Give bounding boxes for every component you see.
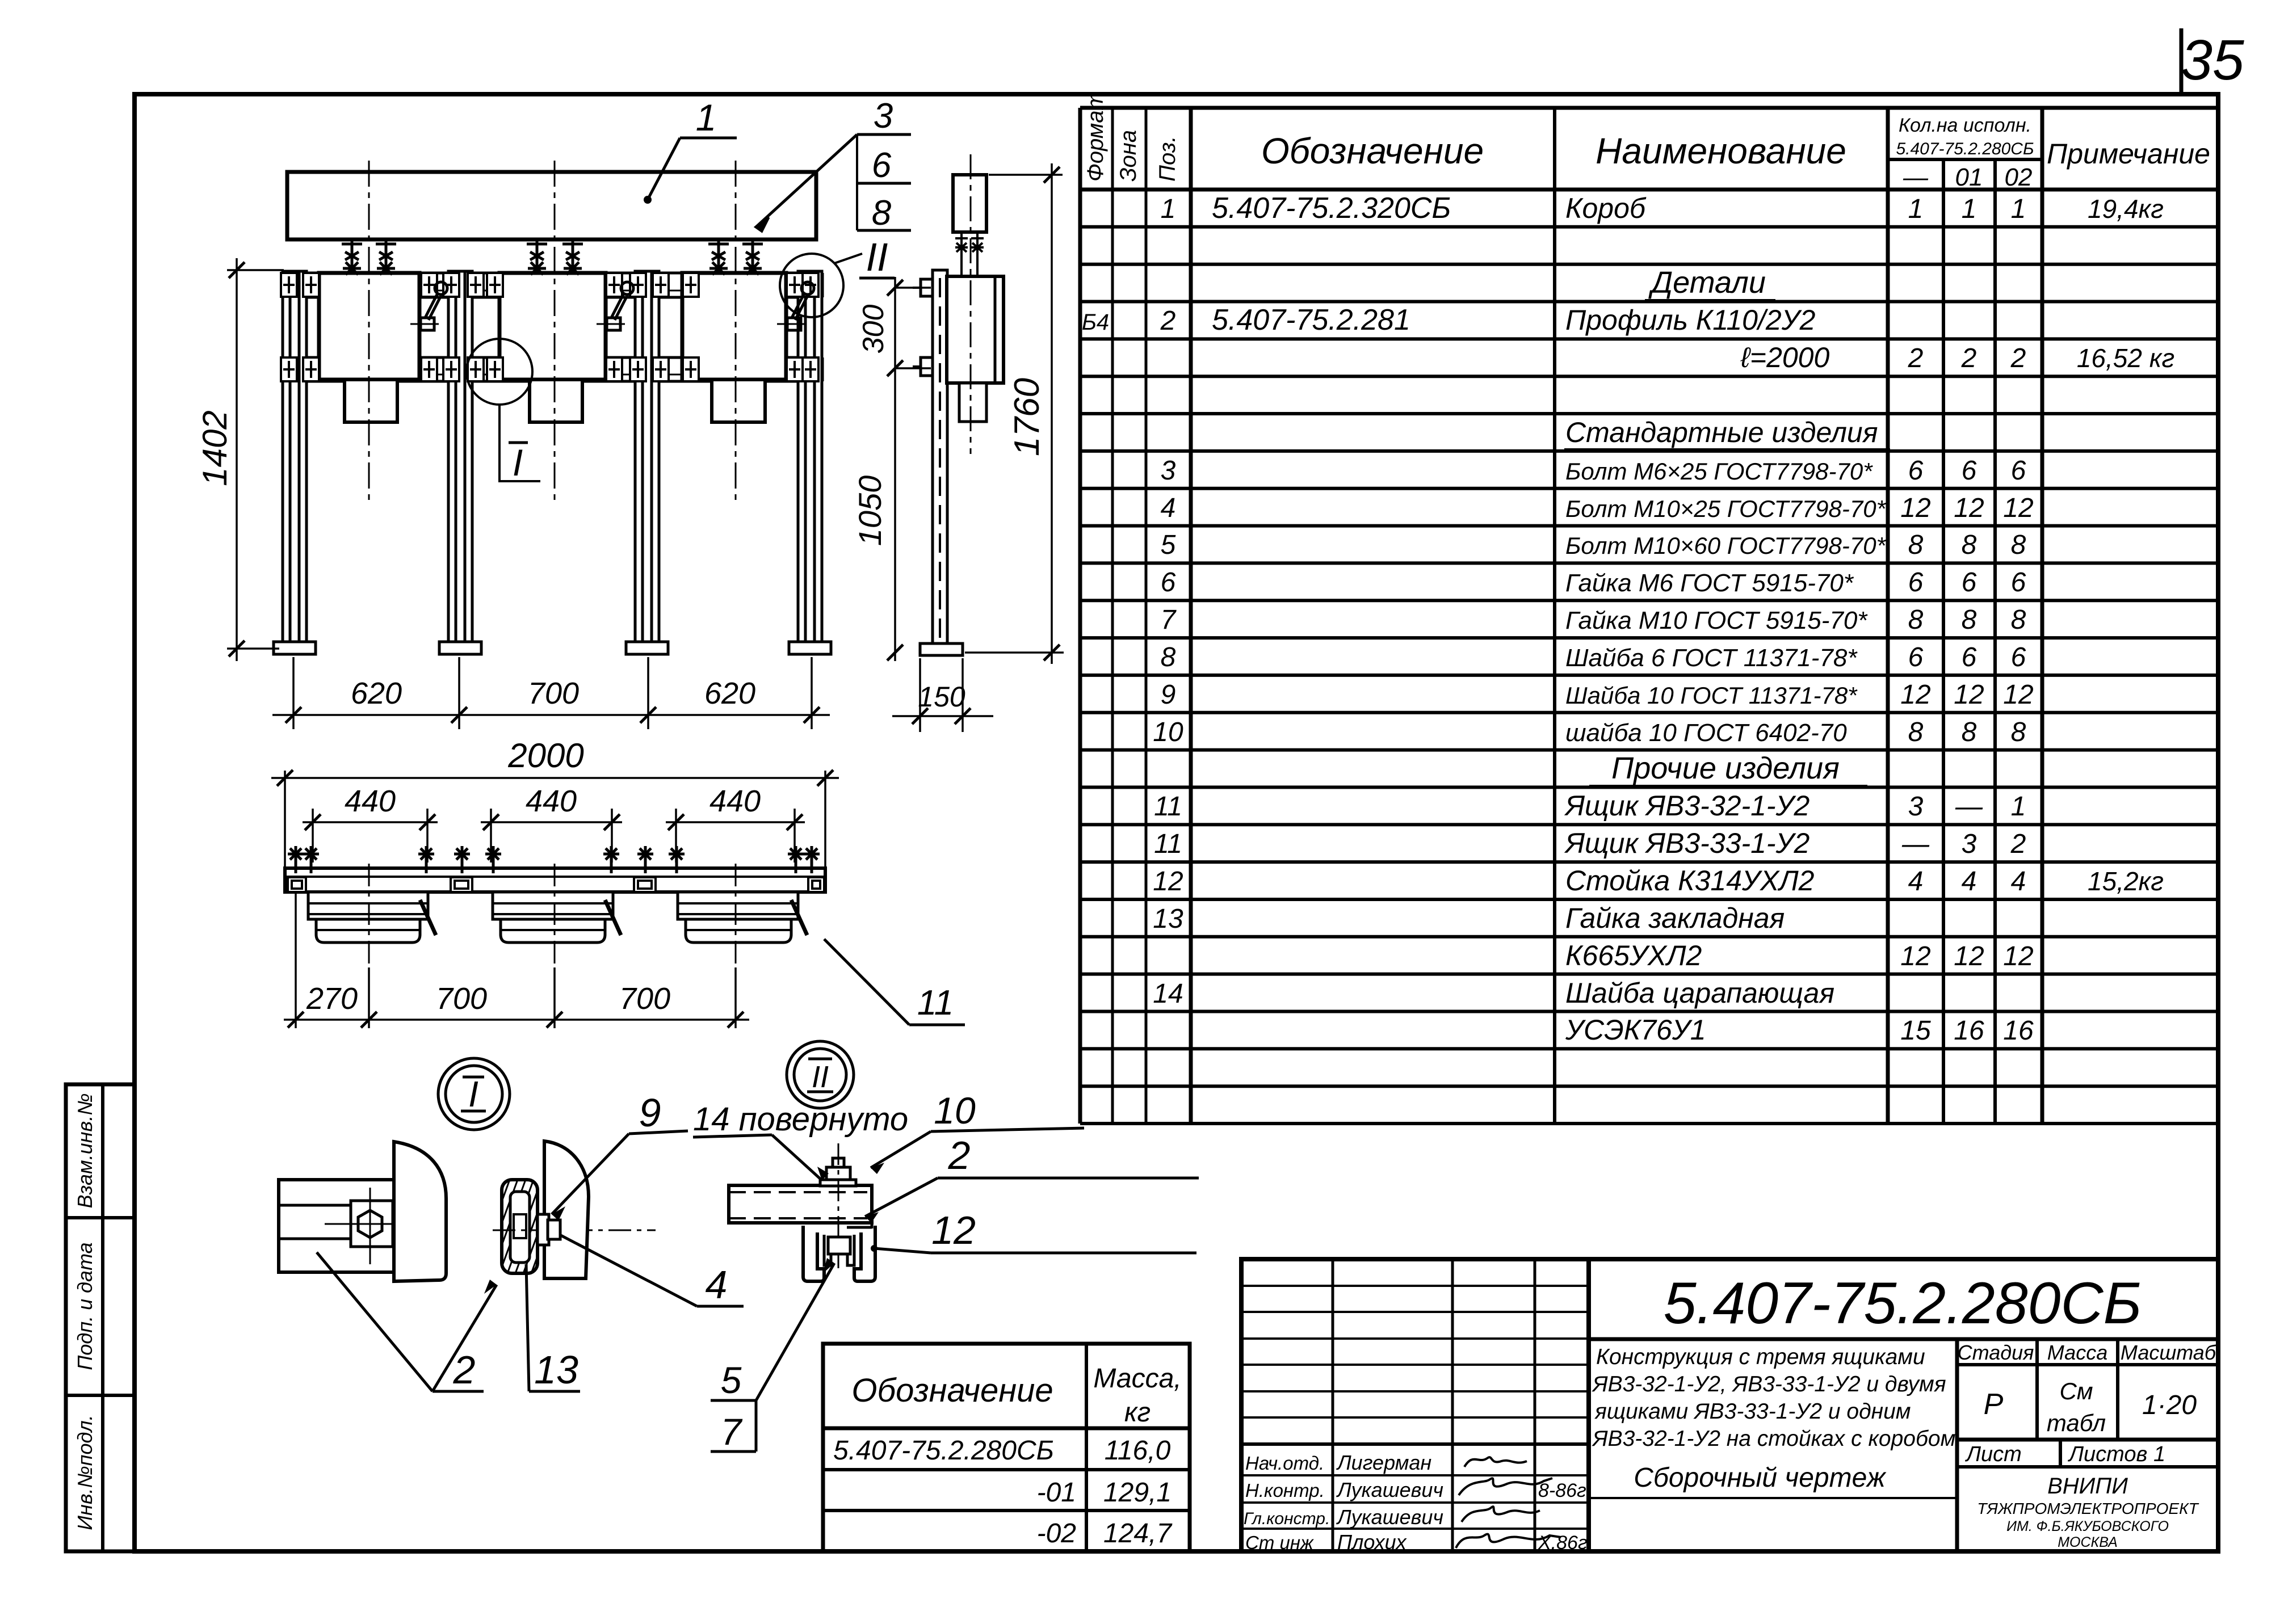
svg-text:4: 4 bbox=[706, 1263, 728, 1307]
svg-text:Масштаб: Масштаб bbox=[2121, 1341, 2217, 1364]
svg-text:2: 2 bbox=[2010, 829, 2026, 859]
svg-text:1·20: 1·20 bbox=[2142, 1390, 2197, 1420]
detail circle I on lower rail bbox=[467, 339, 532, 405]
spec table headers bbox=[1083, 91, 2210, 191]
svg-text:6: 6 bbox=[1962, 456, 1977, 486]
svg-text:12: 12 bbox=[1900, 680, 1930, 710]
svg-text:8: 8 bbox=[1908, 717, 1924, 747]
svg-text:II: II bbox=[812, 1060, 829, 1094]
svg-text:Зона: Зона bbox=[1116, 130, 1141, 182]
svg-text:Гайка М10 ГОСТ 5915-70*: Гайка М10 ГОСТ 5915-70* bbox=[1565, 607, 1868, 634]
svg-text:ЯВ3-32-1-У2, ЯВ3-33-1-У2 и дву: ЯВ3-32-1-У2, ЯВ3-33-1-У2 и двумя bbox=[1592, 1372, 1946, 1396]
side view bolts bbox=[955, 232, 984, 276]
svg-text:Шайба царапающая: Шайба царапающая bbox=[1565, 977, 1834, 1009]
svg-text:1: 1 bbox=[1908, 194, 1924, 224]
svg-text:8: 8 bbox=[1908, 605, 1924, 635]
svg-text:6: 6 bbox=[1962, 567, 1977, 598]
svg-text:15,2кг: 15,2кг bbox=[2088, 866, 2164, 896]
svg-text:1: 1 bbox=[2011, 792, 2026, 822]
svg-text:12: 12 bbox=[1954, 493, 1984, 523]
post stojka 4 bbox=[789, 271, 831, 654]
plan bolts bbox=[288, 846, 304, 873]
svg-text:—: — bbox=[1901, 829, 1930, 859]
plan box 2 bbox=[493, 864, 621, 967]
svg-text:Формат: Формат bbox=[1083, 91, 1108, 182]
spec table grid bbox=[1080, 108, 2218, 1124]
detail I hex bolt bbox=[358, 1210, 382, 1238]
svg-text:15: 15 bbox=[1900, 1016, 1931, 1046]
svg-text:Гл.констр.: Гл.констр. bbox=[1244, 1509, 1330, 1528]
svg-text:Детали: Детали bbox=[1648, 266, 1766, 300]
svg-text:1: 1 bbox=[2011, 194, 2026, 224]
svg-text:150: 150 bbox=[918, 681, 965, 713]
svg-text:Плохих: Плохих bbox=[1337, 1530, 1408, 1554]
detail II profile bar pos2 bbox=[729, 1185, 872, 1228]
svg-text:11: 11 bbox=[1154, 792, 1182, 822]
svg-text:Б4: Б4 bbox=[1082, 310, 1109, 335]
svg-text:14: 14 bbox=[1153, 979, 1183, 1009]
side view post bbox=[920, 270, 963, 655]
svg-text:6: 6 bbox=[2011, 456, 2026, 486]
detail circle II top right bbox=[780, 254, 843, 317]
svg-text:700: 700 bbox=[528, 676, 579, 710]
svg-text:4: 4 bbox=[1962, 866, 1977, 897]
svg-text:8-86г: 8-86г bbox=[1538, 1480, 1586, 1501]
detail II embedded nut K665 bbox=[824, 1235, 854, 1265]
svg-text:4: 4 bbox=[1908, 866, 1924, 897]
svg-text:Взам.инв.№: Взам.инв.№ bbox=[73, 1093, 96, 1209]
svg-text:ТЯЖПРОМЭЛЕКТРОПРОЕКТ: ТЯЖПРОМЭЛЕКТРОПРОЕКТ bbox=[1977, 1500, 2199, 1517]
svg-text:6: 6 bbox=[1161, 567, 1176, 598]
detail marker II bbox=[787, 1041, 854, 1108]
svg-text:кг: кг bbox=[1124, 1398, 1151, 1428]
dim 1402 bbox=[227, 258, 284, 661]
svg-text:5: 5 bbox=[1161, 530, 1176, 560]
svg-text:Короб: Короб bbox=[1565, 192, 1647, 224]
svg-text:Сборочный чертеж: Сборочный чертеж bbox=[1634, 1463, 1887, 1493]
svg-text:12: 12 bbox=[1900, 493, 1930, 523]
box yashchik 3 bbox=[682, 273, 786, 380]
svg-text:ℓ=2000: ℓ=2000 bbox=[1740, 342, 1830, 373]
svg-text:2: 2 bbox=[1908, 343, 1924, 373]
dims 440 bbox=[303, 809, 805, 863]
dim 2000 bbox=[271, 771, 839, 868]
svg-text:3: 3 bbox=[1908, 792, 1924, 822]
svg-text:шайба 10 ГОСТ 6402-70: шайба 10 ГОСТ 6402-70 bbox=[1565, 719, 1847, 747]
svg-text:12: 12 bbox=[1954, 941, 1984, 971]
svg-text:8: 8 bbox=[2011, 530, 2026, 560]
svg-text:129,1: 129,1 bbox=[1103, 1478, 1172, 1508]
svg-text:Ст инж: Ст инж bbox=[1245, 1532, 1314, 1553]
svg-text:8: 8 bbox=[1161, 642, 1176, 672]
detail I clamp nut pos13 hatched bbox=[468, 1180, 589, 1273]
svg-text:8: 8 bbox=[1962, 530, 1977, 560]
title block texts bbox=[1592, 1270, 2217, 1550]
detail I left post flange bbox=[394, 1142, 446, 1281]
detail I right post flange bbox=[544, 1141, 589, 1278]
svg-text:1: 1 bbox=[1161, 194, 1176, 224]
svg-text:440: 440 bbox=[345, 784, 396, 818]
mass table bbox=[823, 1344, 1190, 1551]
svg-text:5.407-75.2.281: 5.407-75.2.281 bbox=[1212, 304, 1410, 336]
svg-text:Обозначение: Обозначение bbox=[1261, 131, 1484, 171]
box latch handle bbox=[597, 282, 633, 330]
svg-text:5: 5 bbox=[721, 1359, 742, 1401]
svg-text:2: 2 bbox=[948, 1133, 971, 1177]
svg-text:-01: -01 bbox=[1037, 1478, 1076, 1508]
svg-text:Стадия: Стадия bbox=[1958, 1341, 2034, 1364]
svg-text:440: 440 bbox=[709, 784, 761, 818]
svg-text:Лигерман: Лигерман bbox=[1336, 1451, 1431, 1474]
svg-text:2: 2 bbox=[1961, 343, 1977, 373]
svg-text:Подп. и дата: Подп. и дата bbox=[73, 1242, 96, 1370]
detail I centerline bbox=[493, 1230, 656, 1231]
svg-text:Гайка М6 ГОСТ 5915-70*: Гайка М6 ГОСТ 5915-70* bbox=[1565, 569, 1854, 597]
svg-text:16: 16 bbox=[2003, 1016, 2034, 1046]
svg-text:Болт М10×60 ГОСТ7798-70*: Болт М10×60 ГОСТ7798-70* bbox=[1565, 532, 1887, 559]
svg-text:9: 9 bbox=[639, 1091, 661, 1135]
svg-text:МОСКВА: МОСКВА bbox=[2058, 1534, 2118, 1550]
svg-text:12: 12 bbox=[2003, 941, 2033, 971]
svg-text:6: 6 bbox=[1962, 642, 1977, 672]
lower rail profile K110 bbox=[283, 357, 822, 381]
dim 150 bbox=[892, 658, 993, 732]
svg-text:13: 13 bbox=[534, 1348, 578, 1392]
svg-text:5.407-75.2.280СБ: 5.407-75.2.280СБ bbox=[1664, 1270, 2142, 1336]
detail I washer and screw pos9/4 bbox=[538, 1214, 560, 1245]
dim 1760 bbox=[965, 163, 1064, 664]
box centerlines bbox=[369, 161, 736, 504]
svg-text:Н.контр.: Н.контр. bbox=[1245, 1480, 1325, 1501]
svg-text:620: 620 bbox=[351, 676, 402, 710]
signatures bbox=[1456, 1457, 1561, 1548]
svg-text:9: 9 bbox=[1161, 680, 1176, 710]
svg-text:Инв.№подл.: Инв.№подл. bbox=[73, 1415, 96, 1530]
svg-text:300: 300 bbox=[857, 305, 890, 354]
svg-text:Лукашевич: Лукашевич bbox=[1336, 1505, 1443, 1529]
svg-text:Нач.отд.: Нач.отд. bbox=[1245, 1453, 1324, 1474]
svg-text:Ящик ЯВ3-32-1-У2: Ящик ЯВ3-32-1-У2 bbox=[1564, 790, 1810, 822]
svg-text:270: 270 bbox=[306, 982, 358, 1016]
svg-text:19,4кг: 19,4кг bbox=[2088, 194, 2164, 224]
svg-text:1050: 1050 bbox=[852, 476, 888, 546]
svg-text:К665УХЛ2: К665УХЛ2 bbox=[1565, 940, 1702, 971]
upper rail profile K110 bbox=[283, 273, 822, 297]
svg-text:—: — bbox=[1955, 792, 1983, 822]
signature rows bbox=[1244, 1451, 1588, 1554]
svg-text:Лист: Лист bbox=[1964, 1442, 2022, 1466]
svg-text:Шайба 6 ГОСТ 11371-78*: Шайба 6 ГОСТ 11371-78* bbox=[1565, 644, 1858, 672]
detail II channel stojka pos12 bbox=[803, 1226, 824, 1281]
svg-text:Кол.на исполн.: Кол.на исполн. bbox=[1899, 115, 2031, 136]
svg-text:1760: 1760 bbox=[1007, 378, 1047, 456]
side view box bbox=[947, 276, 1004, 383]
svg-text:6: 6 bbox=[2011, 567, 2026, 598]
svg-text:14 повернуто: 14 повернуто bbox=[693, 1101, 908, 1138]
svg-text:Гайка закладная: Гайка закладная bbox=[1565, 902, 1785, 934]
post stojka 2 bbox=[439, 271, 481, 654]
svg-text:13: 13 bbox=[1153, 904, 1183, 934]
svg-text:116,0: 116,0 bbox=[1105, 1436, 1171, 1466]
svg-text:02: 02 bbox=[2005, 163, 2033, 191]
post stojka 3 bbox=[626, 271, 668, 654]
svg-text:4: 4 bbox=[1161, 493, 1176, 523]
svg-text:3: 3 bbox=[1962, 829, 1977, 859]
leader labels 3 6 8 bbox=[756, 134, 911, 231]
bolts under korob bbox=[342, 239, 362, 275]
svg-text:10: 10 bbox=[934, 1089, 976, 1131]
svg-text:2000: 2000 bbox=[507, 737, 583, 775]
detail I profile piece pos2 bbox=[279, 1180, 394, 1272]
svg-text:ИМ. Ф.Б.ЯКУБОВСКОГО: ИМ. Ф.Б.ЯКУБОВСКОГО bbox=[2006, 1518, 2169, 1534]
svg-text:Масса: Масса bbox=[2047, 1341, 2107, 1364]
post stojka 1 bbox=[274, 271, 316, 654]
svg-text:II: II bbox=[866, 235, 888, 279]
svg-text:6: 6 bbox=[2011, 642, 2026, 672]
svg-text:Ящик ЯВ3-33-1-У2: Ящик ЯВ3-33-1-У2 bbox=[1564, 827, 1810, 859]
rail inner lips bbox=[283, 291, 822, 375]
box latch handle bbox=[777, 282, 814, 330]
svg-text:6: 6 bbox=[872, 146, 892, 185]
svg-text:Прочие изделия: Прочие изделия bbox=[1611, 751, 1840, 785]
svg-text:12: 12 bbox=[2003, 493, 2033, 523]
svg-text:12: 12 bbox=[931, 1208, 976, 1252]
svg-text:12: 12 bbox=[1153, 866, 1183, 897]
svg-text:Болт М6×25 ГОСТ7798-70*: Болт М6×25 ГОСТ7798-70* bbox=[1565, 458, 1873, 485]
svg-text:8: 8 bbox=[2011, 717, 2026, 747]
plan box 1 bbox=[308, 864, 436, 967]
svg-text:2: 2 bbox=[2010, 343, 2026, 373]
box yashchik 2 bbox=[499, 273, 606, 380]
svg-text:Обозначение: Обозначение bbox=[851, 1372, 1053, 1409]
plan box 3 bbox=[678, 864, 807, 967]
svg-text:5.407-75.2.280СБ: 5.407-75.2.280СБ bbox=[833, 1436, 1054, 1466]
svg-text:ВНИПИ: ВНИПИ bbox=[2047, 1474, 2128, 1499]
svg-text:X.86г: X.86г bbox=[1538, 1532, 1588, 1554]
svg-text:7: 7 bbox=[721, 1411, 743, 1453]
rail bolt pads bbox=[281, 273, 297, 297]
title block outline bbox=[1241, 1259, 2218, 1551]
svg-text:Стандартные изделия: Стандартные изделия bbox=[1565, 416, 1878, 448]
svg-text:11: 11 bbox=[917, 983, 954, 1023]
svg-text:4: 4 bbox=[2011, 866, 2026, 897]
svg-text:3: 3 bbox=[874, 96, 893, 136]
korob duct pos1 bbox=[287, 172, 816, 239]
svg-text:УСЭК76У1: УСЭК76У1 bbox=[1565, 1014, 1706, 1046]
svg-text:6: 6 bbox=[1908, 456, 1924, 486]
svg-text:700: 700 bbox=[436, 982, 487, 1016]
svg-text:6: 6 bbox=[1908, 567, 1924, 598]
svg-text:Примечание: Примечание bbox=[2047, 138, 2210, 170]
svg-text:8: 8 bbox=[1962, 605, 1977, 635]
left margin table bbox=[66, 1084, 135, 1551]
svg-text:Поз.: Поз. bbox=[1155, 136, 1180, 182]
svg-text:124,7: 124,7 bbox=[1103, 1518, 1173, 1549]
side view korob bbox=[953, 175, 986, 232]
svg-text:Стойка К314УХЛ2: Стойка К314УХЛ2 bbox=[1565, 865, 1815, 897]
svg-text:-02: -02 bbox=[1037, 1518, 1076, 1549]
svg-text:Конструкция с тремя ящиками: Конструкция с тремя ящиками bbox=[1596, 1345, 1925, 1369]
svg-text:10: 10 bbox=[1153, 717, 1183, 747]
svg-text:440: 440 bbox=[526, 784, 577, 818]
side bolt heads bbox=[913, 279, 933, 376]
svg-text:11: 11 bbox=[1154, 829, 1182, 859]
svg-text:700: 700 bbox=[619, 982, 670, 1016]
svg-text:620: 620 bbox=[704, 676, 755, 710]
plan rail strip bbox=[285, 868, 825, 892]
svg-text:16,52 кг: 16,52 кг bbox=[2077, 343, 2174, 373]
svg-text:Наименование: Наименование bbox=[1596, 131, 1846, 171]
plan post clips bbox=[288, 877, 824, 892]
svg-text:35: 35 bbox=[2181, 28, 2244, 92]
detail II bolt washer nut pos10/14 bbox=[820, 1158, 856, 1186]
svg-text:ЯВ3-32-1-У2 на стойках с короб: ЯВ3-32-1-У2 на стойках с коробом. bbox=[1592, 1427, 1962, 1451]
dims 270 700 700 bbox=[284, 892, 749, 1028]
svg-text:—: — bbox=[1903, 163, 1929, 191]
svg-text:8: 8 bbox=[872, 193, 892, 233]
svg-text:I: I bbox=[468, 1074, 478, 1114]
svg-text:5.407-75.2.280СБ: 5.407-75.2.280СБ bbox=[1896, 140, 2034, 158]
svg-text:3: 3 bbox=[1161, 456, 1176, 486]
dim 300 and 1050 bbox=[895, 277, 931, 661]
svg-text:Р: Р bbox=[1984, 1388, 2004, 1421]
svg-text:7: 7 bbox=[1161, 605, 1177, 635]
svg-text:12: 12 bbox=[1954, 680, 1984, 710]
svg-text:01: 01 bbox=[1955, 163, 1983, 191]
svg-text:табл: табл bbox=[2047, 1410, 2106, 1436]
spec table rows bbox=[1082, 192, 2174, 1046]
svg-text:Лукашевич: Лукашевич bbox=[1336, 1478, 1443, 1501]
side view centerline bbox=[970, 154, 972, 454]
svg-text:12: 12 bbox=[1900, 941, 1930, 971]
svg-text:Болт М10×25 ГОСТ7798-70*: Болт М10×25 ГОСТ7798-70* bbox=[1565, 495, 1887, 522]
svg-text:8: 8 bbox=[1908, 530, 1924, 560]
svg-text:Листов 1: Листов 1 bbox=[2067, 1442, 2165, 1466]
svg-text:См: См bbox=[2059, 1378, 2093, 1404]
svg-text:Профиль К110/2У2: Профиль К110/2У2 bbox=[1565, 304, 1816, 336]
page number tick bbox=[2180, 28, 2184, 93]
box latch handle bbox=[410, 282, 447, 330]
svg-text:Шайба 10 ГОСТ 11371-78*: Шайба 10 ГОСТ 11371-78* bbox=[1565, 682, 1858, 709]
box yashchik 1 bbox=[319, 273, 419, 380]
svg-text:1: 1 bbox=[1962, 194, 1977, 224]
svg-text:1: 1 bbox=[696, 96, 717, 138]
svg-text:16: 16 bbox=[1954, 1016, 1984, 1046]
svg-text:12: 12 bbox=[2003, 680, 2033, 710]
svg-text:8: 8 bbox=[1962, 717, 1977, 747]
svg-text:I: I bbox=[513, 441, 523, 483]
detail marker I bbox=[438, 1058, 510, 1130]
svg-text:2: 2 bbox=[1160, 306, 1176, 336]
dims 620 700 620 bbox=[272, 657, 830, 729]
svg-text:Масса,: Масса, bbox=[1093, 1364, 1181, 1394]
svg-text:6: 6 bbox=[1908, 642, 1924, 672]
svg-text:ящиками ЯВ3-33-1-У2 и одним: ящиками ЯВ3-33-1-У2 и одним bbox=[1594, 1399, 1911, 1424]
svg-text:8: 8 bbox=[2011, 605, 2026, 635]
svg-text:5.407-75.2.320СБ: 5.407-75.2.320СБ bbox=[1212, 192, 1451, 225]
svg-text:1402: 1402 bbox=[196, 410, 234, 486]
